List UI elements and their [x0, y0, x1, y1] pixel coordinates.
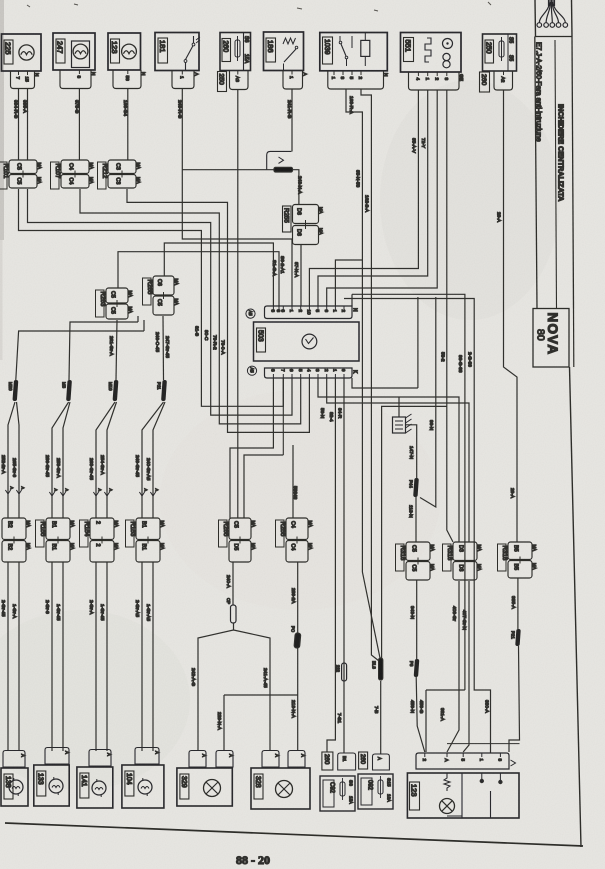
- wire: [447, 581, 459, 752]
- wire: [417, 297, 419, 388]
- wire: [232, 562, 234, 605]
- wire: [291, 89, 293, 152]
- lamp symbol in 247: [73, 44, 88, 59]
- wire: [447, 743, 520, 745]
- wire: [182, 169, 274, 171]
- wire: [18, 562, 20, 751]
- connector under 551: [409, 72, 465, 90]
- wire: [198, 623, 234, 751]
- wire: [230, 378, 273, 518]
- component box 133: [34, 765, 69, 806]
- wire: [309, 90, 418, 306]
- connector: [45, 748, 69, 765]
- wire: [344, 299, 491, 754]
- wire: [153, 402, 165, 518]
- motor symbol in 138: [9, 778, 23, 796]
- stray scan marks: [27, 2, 491, 11]
- inline connector mark: [49, 492, 54, 496]
- connector pair R318-1 R318: [396, 542, 436, 580]
- wire: [463, 581, 469, 752]
- connector pair R107 R107: [51, 160, 95, 189]
- wire: [19, 189, 284, 406]
- inline connector PC: [291, 626, 301, 648]
- wire: [447, 90, 453, 542]
- wire: [164, 243, 273, 306]
- splice P11: [157, 380, 167, 401]
- component box 225: [2, 34, 42, 71]
- component box 141: [77, 767, 113, 808]
- wire: [17, 402, 20, 518]
- wire: [327, 378, 469, 542]
- wire: [406, 425, 417, 478]
- scan blotch 1: [380, 80, 560, 320]
- relay box 1039: [320, 33, 388, 71]
- splice M10: [108, 380, 118, 401]
- small connector B1: [338, 753, 356, 770]
- page bottom border: [5, 823, 583, 846]
- wire: [62, 562, 64, 751]
- switch symbol in 181: [184, 36, 200, 70]
- wire: [352, 294, 465, 690]
- motor symbol in 141: [92, 779, 106, 797]
- inline connector mark: [60, 492, 65, 496]
- component box 181: [155, 33, 199, 71]
- lamp symbol in 328: [276, 781, 293, 798]
- connector pair R263 R263: [96, 288, 134, 319]
- connector pair R154 R154: [80, 518, 120, 562]
- square-wave symbol in 551: [425, 38, 431, 62]
- wire: [143, 320, 145, 331]
- wire: [361, 89, 379, 661]
- lamp unit 123 body: [407, 773, 519, 818]
- scan blotch 2: [0, 610, 190, 790]
- component box 138: [1, 768, 28, 806]
- connector pair R255 row3 R255: [276, 518, 314, 562]
- wire: [343, 378, 345, 753]
- connector: [89, 750, 111, 767]
- connector pair R265 row2 R265: [143, 276, 180, 315]
- wire: [327, 378, 335, 752]
- wire: [416, 677, 425, 752]
- inline connector mark: [93, 492, 98, 496]
- connector: [189, 751, 206, 768]
- connector 260 small: [480, 72, 490, 92]
- wire: [142, 402, 164, 518]
- wire: [297, 562, 299, 633]
- fuse box 092 S15 16A: [358, 774, 393, 809]
- sidebar band edges: [535, 37, 574, 309]
- connector pair R155 R155: [36, 518, 76, 562]
- motor symbol in 104: [138, 778, 152, 796]
- wire: [224, 694, 298, 696]
- pin strip of unit 123: [416, 753, 509, 769]
- wire: [420, 297, 436, 507]
- ground symbol: [393, 414, 412, 433]
- connector pair left 1: [2, 518, 31, 562]
- wire: [141, 562, 143, 751]
- wire: [234, 630, 271, 751]
- splice BL3: [372, 658, 383, 680]
- connector: [262, 751, 279, 768]
- fuse symbol: [499, 37, 504, 61]
- wire: [27, 89, 29, 161]
- wire: [7, 562, 9, 751]
- unit 503 circle symbol: [302, 334, 317, 349]
- wire: [182, 89, 292, 307]
- wire: [415, 497, 417, 542]
- component box 123 top: [108, 33, 141, 70]
- wire: [78, 89, 80, 161]
- connector pair R318-2 R318: [443, 542, 483, 580]
- splice M3: [62, 380, 72, 401]
- wire: [300, 245, 302, 307]
- wire: [380, 681, 382, 754]
- fuse box 260 S6 15A: [220, 33, 251, 71]
- wire: [382, 406, 447, 658]
- wire: [509, 646, 520, 752]
- wire: [162, 316, 165, 380]
- wire: [137, 316, 139, 322]
- wire: [18, 89, 20, 161]
- lamp unit 329: [177, 768, 232, 806]
- wire: [51, 562, 53, 751]
- connector under 247: [60, 70, 96, 89]
- component box 247: [53, 33, 95, 70]
- NOVA title box: [533, 309, 569, 368]
- scan smudge left edge lower: [0, 240, 3, 360]
- fuse holder 260 #1: [322, 752, 333, 770]
- wire: [127, 89, 129, 161]
- wire: [416, 580, 418, 659]
- motor symbol in 133: [49, 777, 63, 795]
- unit 503 bottom pin strip: [265, 368, 353, 378]
- wire: [426, 689, 465, 691]
- splice P21: [511, 629, 521, 646]
- inline connector mark: [5, 490, 10, 494]
- label 123: [110, 39, 119, 63]
- lamp symbol in 225: [19, 45, 34, 60]
- connector: [135, 748, 159, 765]
- wire: [69, 322, 138, 380]
- wire: [297, 648, 299, 751]
- connector pair R265 row3 R265: [219, 518, 257, 562]
- unit 503 top pins: [271, 306, 358, 315]
- wire: [52, 402, 69, 518]
- connector: [216, 751, 233, 768]
- component box 551: [401, 33, 462, 73]
- wire: [318, 90, 428, 306]
- label 247: [56, 39, 65, 63]
- wire: [127, 189, 309, 432]
- component box 186 relay: [264, 32, 304, 71]
- inline connector flag P: [267, 151, 293, 172]
- connector: [288, 751, 305, 768]
- resistor in 1039: [361, 33, 370, 66]
- wire: [8, 402, 15, 518]
- wire: [96, 402, 115, 518]
- unit 503 bottom pins: [271, 369, 358, 378]
- wire: [346, 89, 380, 658]
- wire: [282, 406, 284, 455]
- resistor zigzag in 123: [444, 773, 450, 791]
- connector under 1039: [328, 71, 389, 89]
- connector under 123: [113, 70, 146, 89]
- inline connector mark: [104, 492, 109, 496]
- connector pair R153 R153: [126, 518, 166, 562]
- wire: [80, 189, 301, 424]
- multi-pin connector symbol top: [537, 0, 568, 27]
- splice P44: [409, 478, 419, 497]
- partitions in 123: [447, 773, 502, 818]
- central control unit 503: [265, 306, 353, 319]
- connector pair R212 R212: [98, 160, 142, 189]
- wire: [95, 562, 97, 751]
- scan smudge left edge: [0, 0, 4, 240]
- wire: [517, 578, 519, 629]
- wire: [237, 90, 239, 519]
- circled A5 bottom: [247, 366, 256, 375]
- connector under 186: [283, 71, 308, 90]
- title block sidebar: [535, 0, 572, 37]
- lamp symbol in 329: [204, 780, 221, 797]
- wire: [106, 562, 108, 751]
- connector under 181: [172, 71, 199, 89]
- unit 503 main body: [254, 322, 360, 361]
- inline connector mark: [16, 490, 21, 494]
- circled A5 top: [246, 309, 255, 318]
- wire: [318, 378, 459, 542]
- wire: [398, 397, 400, 417]
- connector A3: [230, 71, 249, 90]
- wire: [244, 455, 283, 518]
- wire: [116, 320, 117, 380]
- wire: [223, 695, 225, 751]
- inline connector mark: [150, 492, 155, 496]
- splice P8: [409, 659, 419, 677]
- splice S222: [336, 663, 347, 681]
- wire: [107, 402, 117, 518]
- connector pair R318-3 R318: [498, 542, 538, 578]
- wire: [327, 90, 438, 306]
- switch contacts in 1039: [339, 36, 352, 66]
- label 181: [158, 38, 168, 63]
- fuse holder 260 #2: [359, 752, 368, 769]
- indicator circles in 551: [443, 39, 453, 68]
- wire: [292, 445, 294, 518]
- lamp symbol in 123: [122, 44, 137, 59]
- wire: [425, 690, 427, 752]
- component box 104: [122, 765, 164, 808]
- unit 123 pins: [422, 753, 516, 766]
- wire: [293, 170, 299, 205]
- right page border: [573, 309, 575, 368]
- fuse box 260 right: [483, 34, 517, 71]
- connector A2: [494, 71, 513, 90]
- splice M20: [8, 380, 18, 401]
- wire: [335, 260, 362, 306]
- wire: [118, 252, 279, 306]
- wire: [351, 294, 353, 306]
- small connector A: [373, 754, 390, 770]
- connector: [3, 751, 25, 768]
- scan blotch 3: [160, 390, 440, 610]
- wire: [16, 331, 144, 380]
- inline connector mark: [139, 492, 144, 496]
- connector 250 under fuse: [217, 72, 226, 92]
- connector pair R255 D6/D6: [282, 206, 291, 232]
- label 225: [4, 40, 13, 64]
- wire: [63, 402, 70, 518]
- fuse symbol: [235, 36, 240, 61]
- relay coil+contact symbol: [283, 38, 298, 70]
- wire: [28, 189, 293, 415]
- wire: [282, 378, 284, 406]
- connector pair R101 R101: [0, 160, 42, 189]
- lamp unit 328: [251, 768, 310, 809]
- lamp symbol in 123: [440, 799, 455, 814]
- fuse box C92 S3 15A: [320, 776, 355, 811]
- wire: [352, 378, 418, 388]
- wire: [504, 90, 518, 542]
- connector under 225: [11, 71, 40, 89]
- inline fuse CP: [226, 598, 236, 623]
- wire: [152, 562, 154, 751]
